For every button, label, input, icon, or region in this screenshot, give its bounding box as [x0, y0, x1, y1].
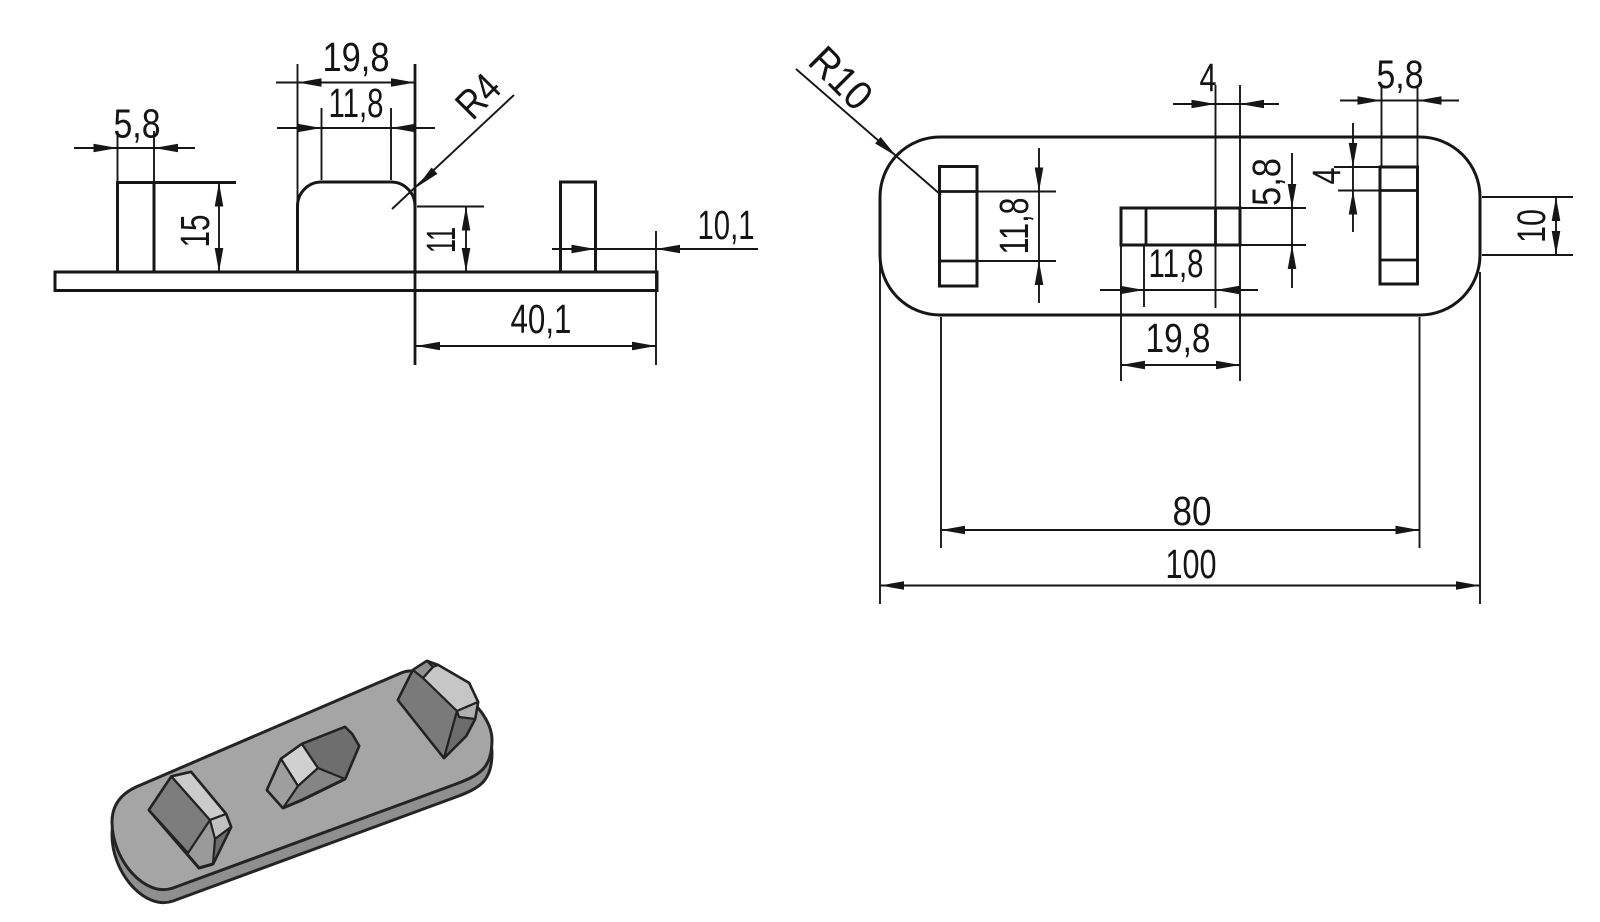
dimension 4 extension lines — [1215, 85, 1217, 308]
3D view: left boss body — [149, 772, 231, 868]
3D view: left boss dark wedge — [213, 827, 231, 864]
dimension 5,8 slot arrows — [1358, 96, 1382, 105]
dimension 40,1 extension line — [655, 231, 657, 365]
svg-text:11: 11 — [418, 227, 464, 253]
svg-text:5,8: 5,8 — [1377, 53, 1424, 97]
dimension 10 line — [1555, 197, 1557, 255]
dimension 11,8 slot line — [1038, 148, 1040, 303]
dimension 5,8 line — [74, 147, 195, 149]
3D view: right boss end chamfer — [413, 661, 433, 678]
plan view: left slot — [940, 167, 978, 287]
dimension 4 right line — [1352, 123, 1354, 232]
svg-text:11,8: 11,8 — [329, 80, 384, 126]
R4 leader line — [392, 95, 514, 209]
dimension 4 line — [1173, 103, 1279, 105]
dimension 5,8 extension lines — [117, 131, 119, 181]
svg-text:5,8: 5,8 — [114, 101, 161, 147]
dimension 11,8 slot arrows — [1035, 168, 1044, 192]
svg-text:100: 100 — [1166, 541, 1217, 587]
3D view: plate bottom and side face — [112, 684, 492, 903]
svg-text:10: 10 — [1510, 209, 1554, 243]
dimension 100 arrows — [880, 581, 904, 590]
dimension 11,8 arrows — [298, 124, 322, 133]
dimension 11,8 center extension lines — [1120, 246, 1122, 381]
dimension 11,8 line — [277, 127, 435, 129]
dimension 11 extension line — [417, 206, 484, 208]
plan view: right slot — [1380, 167, 1418, 284]
front view: base plate profile — [55, 272, 657, 291]
dimension 5,8 slot line — [1340, 100, 1459, 102]
svg-text:19,8: 19,8 — [323, 34, 390, 80]
svg-text:11,8: 11,8 — [991, 198, 1037, 255]
dimension 11,8 center bottom line — [1100, 289, 1258, 291]
3D view: left boss right bevel — [210, 814, 231, 839]
dimension 11 arrows — [462, 207, 471, 231]
svg-text:R10: R10 — [800, 37, 882, 119]
dimension 80 line — [941, 529, 1420, 531]
dimension 11,8 center bottom arrows — [1120, 286, 1144, 295]
dimension 100 line — [880, 585, 1480, 587]
svg-text:5,8: 5,8 — [1245, 158, 1289, 206]
R10 leader line — [796, 69, 941, 195]
dimension 15 line — [218, 183, 220, 273]
front view long extension line — [414, 64, 417, 365]
dimension 5,8 center line — [1291, 153, 1293, 288]
3D view: right boss right light bevel — [457, 702, 478, 719]
3D view: right boss top light face — [423, 665, 478, 711]
dimension 15 arrows — [215, 183, 224, 207]
dimension 80 arrows — [941, 526, 965, 535]
dimension 4 right extension lines — [1334, 166, 1379, 168]
svg-text:19,8: 19,8 — [1146, 315, 1211, 361]
plan view: center slot — [1121, 208, 1240, 245]
3D view: center boss left face — [267, 759, 298, 808]
dimension 5,8 slot extension lines — [1381, 85, 1383, 166]
dimension 5,8 center extension lines — [1241, 207, 1306, 209]
svg-text:80: 80 — [1173, 488, 1212, 534]
front view: left boss — [116, 183, 119, 273]
dimension 40,1 line — [416, 345, 656, 347]
dimension 19,8 arrows — [298, 78, 322, 87]
3D view: left boss dark face — [149, 777, 210, 854]
dimension 10,1 line — [552, 248, 758, 250]
svg-text:40,1: 40,1 — [511, 296, 572, 342]
3D view: plate top face — [112, 671, 492, 890]
front view: center boss (R4 corners) — [298, 182, 416, 272]
svg-text:15: 15 — [172, 215, 218, 248]
dimension 40,1 arrows — [416, 342, 440, 351]
front view: right boss — [559, 182, 562, 272]
3D view: right boss body — [398, 661, 478, 758]
svg-text:4: 4 — [1305, 168, 1349, 185]
3D view: left boss top light strip — [172, 772, 227, 820]
dimension 5,8 center arrows — [1288, 184, 1297, 208]
dimension 19,8 plan arrows — [1121, 361, 1145, 370]
3D view: right boss bottom dark bevel — [444, 711, 475, 758]
plan view: plate outline R10 — [880, 137, 1480, 315]
3D view: center boss body — [267, 727, 359, 808]
dimension 100 extension lines — [879, 262, 881, 604]
svg-text:11,8: 11,8 — [1149, 242, 1204, 286]
3D view: center boss light face — [281, 744, 318, 786]
dimension 11 line — [465, 207, 467, 273]
dimension 19,8 line — [276, 82, 415, 84]
dimension 10 arrows — [1552, 197, 1561, 221]
dimension 19,8 plan line — [1121, 364, 1240, 366]
svg-text:R4: R4 — [446, 64, 510, 128]
3D view: center boss dark top — [302, 727, 359, 779]
dimension 10,1 arrows — [572, 245, 596, 254]
dimension 4 right arrows — [1349, 143, 1358, 167]
dimension 19,8 extension line — [297, 64, 299, 203]
3D view: right boss dark face — [398, 670, 457, 758]
dimension 11,8 slot extension lines — [978, 191, 1056, 193]
svg-text:10,1: 10,1 — [698, 202, 755, 248]
svg-text:4: 4 — [1200, 56, 1217, 100]
R10 leader arrow — [875, 137, 896, 156]
dimension 10 extension lines — [1482, 196, 1573, 198]
dimension 5,8 arrows — [94, 144, 118, 153]
dimension 80 extension lines — [940, 317, 942, 548]
R4 leader arrow — [417, 168, 438, 188]
dimension 11,8 extension lines — [321, 108, 323, 180]
dimension 4 arrows — [1192, 100, 1216, 109]
